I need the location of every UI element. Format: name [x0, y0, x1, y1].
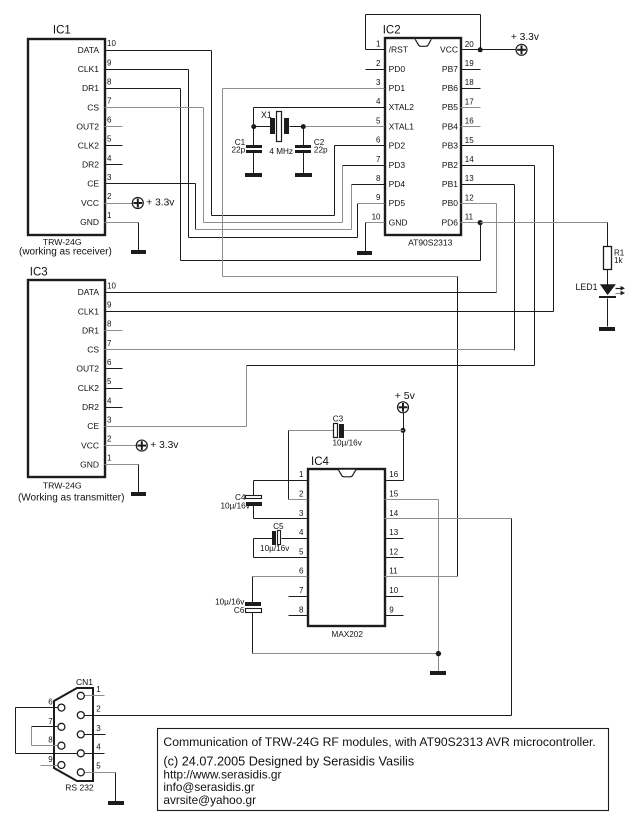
svg-text:DR1: DR1 — [82, 325, 99, 335]
svg-text:10µ/16v: 10µ/16v — [215, 598, 245, 607]
svg-text:10: 10 — [372, 212, 381, 221]
svg-text:2: 2 — [107, 435, 112, 444]
svg-text:GND: GND — [80, 460, 99, 470]
svg-text:4 MHz: 4 MHz — [269, 147, 293, 156]
svg-text:3: 3 — [376, 78, 381, 87]
svg-text:9: 9 — [107, 300, 112, 309]
svg-text:PB1: PB1 — [442, 179, 458, 189]
svg-text:6: 6 — [107, 116, 112, 125]
svg-text:PD5: PD5 — [389, 198, 406, 208]
svg-text:10: 10 — [107, 39, 116, 48]
svg-text:CS: CS — [87, 102, 99, 112]
svg-text:8: 8 — [107, 77, 112, 86]
svg-text:7: 7 — [107, 97, 112, 106]
svg-text:4: 4 — [107, 396, 112, 405]
svg-text:2: 2 — [299, 490, 304, 499]
svg-text:PD2: PD2 — [389, 141, 406, 151]
svg-text:3: 3 — [107, 173, 112, 182]
svg-text:16: 16 — [389, 470, 398, 479]
svg-text:CLK1: CLK1 — [78, 306, 100, 316]
svg-text:IC3: IC3 — [30, 266, 48, 278]
svg-text:7: 7 — [48, 717, 53, 726]
svg-text:C6: C6 — [234, 606, 245, 615]
svg-text:6: 6 — [376, 136, 381, 145]
svg-text:4: 4 — [96, 743, 101, 752]
svg-text:19: 19 — [465, 59, 474, 68]
svg-text:3: 3 — [96, 724, 101, 733]
svg-text:1: 1 — [376, 40, 381, 49]
svg-text:15: 15 — [389, 490, 398, 499]
svg-text:XTAL2: XTAL2 — [389, 102, 415, 112]
svg-text:7: 7 — [376, 155, 381, 164]
svg-text:XTAL1: XTAL1 — [389, 121, 415, 131]
svg-text:8: 8 — [48, 736, 53, 745]
svg-text:9: 9 — [48, 755, 53, 764]
svg-text:PD6: PD6 — [441, 217, 458, 227]
svg-text:5: 5 — [107, 135, 112, 144]
svg-text:IC4: IC4 — [311, 456, 330, 468]
svg-text:CE: CE — [87, 421, 99, 431]
svg-text:PB6: PB6 — [442, 83, 458, 93]
svg-text:PB7: PB7 — [442, 64, 458, 74]
svg-text:22p: 22p — [232, 146, 246, 155]
svg-text:7: 7 — [107, 339, 112, 348]
svg-text:4: 4 — [376, 97, 381, 106]
svg-text:17: 17 — [465, 97, 474, 106]
svg-text:5: 5 — [96, 762, 101, 771]
svg-text:9: 9 — [389, 605, 394, 614]
svg-text:10µ/16v: 10µ/16v — [220, 502, 250, 511]
svg-text:+ 5v: + 5v — [395, 390, 416, 402]
svg-text:DR2: DR2 — [82, 160, 99, 170]
svg-text:11: 11 — [389, 567, 398, 576]
svg-text:C3: C3 — [333, 414, 344, 423]
svg-text:10µ/16v: 10µ/16v — [333, 438, 363, 447]
svg-text:OUT2: OUT2 — [76, 364, 99, 374]
svg-text:Communication of TRW-24G RF mo: Communication of TRW-24G RF modules, wit… — [163, 735, 595, 749]
svg-text:CE: CE — [87, 179, 99, 189]
svg-text:+ 3.3v: + 3.3v — [150, 440, 179, 451]
svg-text:6: 6 — [299, 567, 304, 576]
svg-text:10µ/16v: 10µ/16v — [260, 544, 290, 553]
svg-text:+ 3.3v: + 3.3v — [511, 32, 540, 43]
svg-text:avrsite@yahoo.gr: avrsite@yahoo.gr — [163, 793, 256, 807]
svg-text:6: 6 — [48, 698, 53, 707]
svg-text:DR1: DR1 — [82, 83, 99, 93]
svg-text:14: 14 — [389, 509, 398, 518]
svg-text:GND: GND — [80, 217, 99, 227]
svg-text:12: 12 — [465, 193, 474, 202]
svg-text:DATA: DATA — [78, 45, 100, 55]
svg-text:20: 20 — [465, 40, 474, 49]
svg-text:VCC: VCC — [81, 198, 99, 208]
svg-text:5: 5 — [376, 116, 381, 125]
svg-text:3: 3 — [299, 509, 304, 518]
svg-text:CN1: CN1 — [76, 677, 93, 687]
svg-text:22p: 22p — [314, 146, 328, 155]
svg-text:1: 1 — [107, 454, 112, 463]
svg-text:VCC: VCC — [440, 45, 458, 55]
svg-text:10: 10 — [107, 281, 116, 290]
svg-text:IC2: IC2 — [383, 24, 401, 36]
svg-text:10: 10 — [389, 586, 398, 595]
svg-text:X1: X1 — [261, 110, 272, 120]
svg-text:4: 4 — [107, 154, 112, 163]
svg-text:TRW-24G: TRW-24G — [43, 480, 82, 490]
svg-text:8: 8 — [376, 174, 381, 183]
svg-text:2: 2 — [96, 705, 101, 714]
svg-text:C5: C5 — [273, 522, 284, 531]
svg-text:11: 11 — [465, 213, 474, 222]
svg-text:PB4: PB4 — [442, 121, 458, 131]
svg-text:2: 2 — [107, 192, 112, 201]
svg-text:PB0: PB0 — [442, 198, 458, 208]
svg-text:3: 3 — [107, 415, 112, 424]
svg-text:+ 3.3v: + 3.3v — [146, 198, 175, 209]
svg-text:GND: GND — [389, 217, 408, 227]
svg-text:1: 1 — [96, 685, 101, 694]
svg-text:16: 16 — [465, 117, 474, 126]
svg-text:9: 9 — [107, 58, 112, 67]
svg-text:1: 1 — [299, 470, 304, 479]
svg-text:13: 13 — [389, 528, 398, 537]
svg-text:8: 8 — [299, 605, 304, 614]
svg-text:9: 9 — [376, 193, 381, 202]
svg-text:5: 5 — [299, 547, 304, 556]
svg-text:PD0: PD0 — [389, 64, 406, 74]
svg-text:PB3: PB3 — [442, 141, 458, 151]
svg-text:CS: CS — [87, 345, 99, 355]
svg-text:PD3: PD3 — [389, 160, 406, 170]
svg-text:AT90S2313: AT90S2313 — [408, 238, 453, 248]
svg-text:/RST: /RST — [389, 45, 408, 55]
svg-text:13: 13 — [465, 174, 474, 183]
svg-text:4: 4 — [299, 528, 304, 537]
svg-text:2: 2 — [376, 59, 381, 68]
svg-text:(Working as transmitter): (Working as transmitter) — [18, 492, 125, 503]
svg-text:14: 14 — [465, 155, 474, 164]
svg-text:(working as receiver): (working as receiver) — [19, 247, 112, 258]
svg-text:RS 232: RS 232 — [65, 783, 94, 793]
svg-text:DATA: DATA — [78, 287, 100, 297]
svg-text:LED1: LED1 — [575, 282, 597, 292]
svg-text:OUT2: OUT2 — [76, 121, 99, 131]
svg-text:18: 18 — [465, 78, 474, 87]
svg-text:5: 5 — [107, 377, 112, 386]
svg-text:12: 12 — [389, 547, 398, 556]
svg-text:8: 8 — [107, 320, 112, 329]
svg-text:CLK2: CLK2 — [78, 383, 100, 393]
svg-text:7: 7 — [299, 586, 304, 595]
svg-text:PB2: PB2 — [442, 160, 458, 170]
svg-text:PB5: PB5 — [442, 102, 458, 112]
svg-text:CLK2: CLK2 — [78, 141, 100, 151]
svg-text:MAX202: MAX202 — [332, 630, 364, 639]
svg-text:1: 1 — [107, 211, 112, 220]
svg-text:IC1: IC1 — [53, 24, 71, 36]
svg-text:6: 6 — [107, 358, 112, 367]
svg-text:PD1: PD1 — [389, 83, 406, 93]
svg-text:PD4: PD4 — [389, 179, 406, 189]
svg-text:DR2: DR2 — [82, 402, 99, 412]
svg-text:CLK1: CLK1 — [78, 64, 100, 74]
svg-text:1k: 1k — [614, 256, 623, 265]
svg-text:VCC: VCC — [81, 440, 99, 450]
svg-text:15: 15 — [465, 136, 474, 145]
